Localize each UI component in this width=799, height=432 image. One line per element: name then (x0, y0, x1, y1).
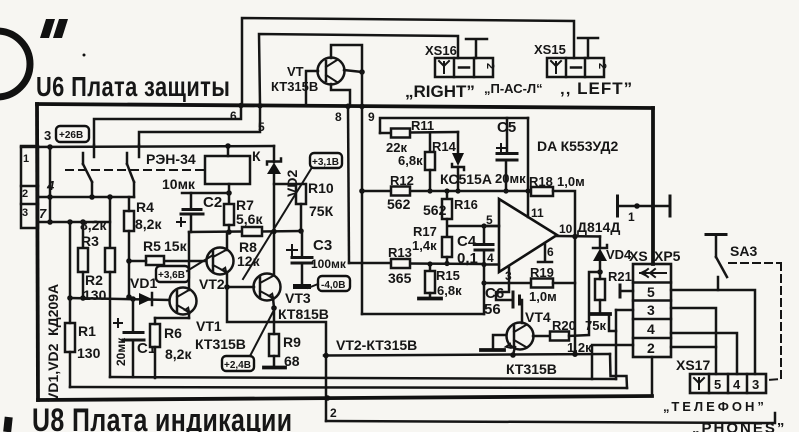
resistor R1 (65, 323, 75, 352)
svg-text:9: 9 (368, 110, 375, 124)
wire VT1 emitter row to R6 (155, 317, 189, 320)
junction dot R10/C3 row232 (298, 228, 304, 234)
junction dot R1/row297 (67, 295, 73, 301)
node 8 dot on border (345, 104, 351, 110)
wire R19 right lead (553, 282, 575, 285)
wire row297 (VD1 row) (70, 298, 169, 300)
wire VT2 emitter branch down to node2 column (227, 287, 326, 421)
svg-text:3: 3 (44, 128, 51, 143)
svg-text:C6: C6 (485, 285, 504, 302)
svg-text:365: 365 (388, 270, 412, 286)
connector XS16 box (435, 58, 493, 77)
svg-text:75К: 75К (309, 203, 334, 219)
wire cell4 right to XS17 pin4 (671, 333, 737, 374)
resistor R18 (horizontal) (531, 187, 553, 196)
wire terminal bar link to rail379 riser (609, 315, 616, 331)
svg-text:R17: R17 (413, 224, 437, 239)
connector XS15 box (547, 58, 604, 77)
svg-text:R13: R13 (388, 245, 412, 260)
resistor R15 (425, 271, 435, 293)
svg-text:1: 1 (628, 210, 635, 224)
junction dot SW1 bottom (89, 194, 95, 200)
svg-text:8: 8 (335, 110, 342, 124)
resistor R4 (124, 211, 134, 231)
wire cell5 right to XS17 pin3 (671, 290, 755, 374)
junction dot row222 R2 lead (80, 219, 86, 225)
wire R13 row (349, 263, 484, 264)
junction dot R4col/R5 (126, 258, 132, 264)
junction dot output (572, 234, 578, 240)
wire VT collector loop to node 9 column (331, 45, 362, 72)
wire R21 top lead (599, 272, 602, 279)
junction dot pin5/C4 (481, 223, 486, 228)
wire VT2 collector stub (226, 232, 229, 250)
wire R14 bottom lead (429, 170, 432, 191)
outer border bottom (38, 396, 652, 400)
junction dot node9/R12 row (359, 188, 365, 194)
op-amp DA triangle (499, 199, 557, 272)
wire relay coil bottom to R7 (228, 184, 231, 204)
C5 plus sign (497, 144, 505, 152)
junction dot row147 x50 (47, 144, 53, 150)
wire R15 bottom lead (429, 293, 432, 297)
node 5 dot on border (257, 103, 263, 109)
resistor R17 (442, 237, 452, 257)
junction dot C5/row191 (503, 188, 508, 193)
svg-text:R3: R3 (81, 233, 99, 249)
wire R15 top lead (429, 264, 432, 271)
svg-text:DA К553УД2: DA К553УД2 (537, 138, 618, 154)
wire cell2 left to rail379 (592, 345, 633, 379)
transistor VT (KT315V) top (318, 58, 345, 85)
XS15 chassis T symbol (578, 38, 598, 58)
svg-text:6,8к: 6,8к (437, 283, 462, 298)
svg-text:10: 10 (559, 222, 573, 236)
XS17 arrow glyph (694, 378, 704, 389)
capacitor C1 (123, 299, 144, 377)
resistor R8 (horizontal) (242, 227, 262, 236)
svg-text:562: 562 (423, 202, 447, 218)
node 9 dot on border (359, 104, 365, 110)
svg-text:РЭН-34: РЭН-34 (146, 151, 196, 167)
SA3 mech dashed link (729, 262, 779, 264)
C1 plus sign (114, 319, 122, 327)
svg-text:5: 5 (486, 213, 493, 227)
svg-text:11: 11 (531, 206, 544, 220)
resistor R7 (224, 204, 234, 225)
wire R6 top lead (154, 318, 157, 324)
svg-text:R14: R14 (432, 139, 457, 154)
svg-text:XS17: XS17 (676, 357, 710, 373)
svg-text:U8 Плата индикации: U8 Плата индикации (32, 403, 293, 432)
pin 4 stub (484, 263, 499, 266)
junction dot R2/row297 (80, 295, 86, 301)
wire R5 left lead to R4 column (129, 260, 146, 263)
svg-text:VT2-КТ315В: VT2-КТ315В (336, 337, 417, 353)
big circle fragment top-left (0, 31, 30, 97)
svg-text:0,1: 0,1 (457, 250, 478, 267)
wire top rail 1 (to XS15) (242, 18, 574, 104)
svg-text:R12: R12 (390, 173, 414, 188)
svg-text:КТ815В: КТ815В (278, 306, 329, 322)
svg-text:1,0м: 1,0м (529, 289, 557, 304)
transistor VT4 (506, 323, 534, 350)
wire XP5 top feed (board right edge) already drawn; terminal T left of cell5 (620, 285, 633, 297)
outer border left (37, 104, 38, 400)
svg-text:4: 4 (487, 251, 494, 265)
pin 3 stub (508, 266, 511, 283)
wire node6 down-left to switch1 (94, 106, 241, 145)
resistor R6 (150, 324, 160, 347)
svg-text:5,6к: 5,6к (236, 211, 263, 227)
svg-text:SA3: SA3 (730, 243, 757, 259)
wire cell3 riser to rail379 (615, 310, 618, 379)
wire VT4 collector to R20 (533, 335, 550, 338)
wire VT3 emitter down (273, 298, 274, 308)
wire top rail 2 (to XS16) (259, 34, 458, 104)
diode VD4 (zener) (593, 237, 607, 273)
connector XP5 box (633, 264, 671, 357)
junction dot feedback/railA (572, 351, 578, 357)
resistor R9 (269, 334, 279, 356)
transistor VT3 (254, 274, 281, 301)
svg-text:„ТЕЛЕФОН”: „ТЕЛЕФОН” (663, 399, 767, 414)
wire R1 bottom lead to mid rail (69, 352, 72, 387)
svg-text:1,2к: 1,2к (567, 340, 592, 355)
svg-text:C5: C5 (497, 119, 516, 136)
pin 5 stub (484, 225, 499, 228)
XS16 pin glyph dash (459, 66, 469, 69)
svg-text:1,4к: 1,4к (412, 238, 437, 253)
junction dot relay bottom / C2 row (226, 190, 232, 196)
diode VD2 (zener) (267, 146, 281, 174)
svg-text:К: К (252, 148, 261, 164)
wire VD2 to R10 top (274, 183, 296, 186)
relay contact SW2 (127, 145, 139, 197)
XP5 arrow glyph cell (640, 269, 666, 277)
svg-text:R11: R11 (411, 118, 434, 133)
wire VT2 emitter row to VT3 base (227, 286, 254, 289)
svg-text:6,8к: 6,8к (398, 153, 423, 168)
svg-text:„RIGHT”: „RIGHT” (405, 82, 475, 101)
rail A VT4 emitter row (324, 354, 610, 356)
wire R9 top lead (273, 308, 276, 334)
resistor R10 (296, 184, 306, 204)
transistor VT1 (170, 288, 197, 315)
svg-text:КС515А: КС515А (440, 171, 492, 187)
svg-text:R19: R19 (530, 265, 554, 280)
svg-text:R18: R18 (529, 174, 553, 189)
junction dot R4 column row297 (126, 294, 132, 300)
wire R17 bottom lead (446, 257, 449, 264)
wire row232 main (189, 231, 301, 232)
svg-text:56: 56 (484, 301, 501, 318)
junction dot VD4/R21/R20 (597, 269, 603, 275)
wire R19 row (C4 to R19) (484, 282, 531, 285)
svg-text:VT: VT (287, 64, 304, 79)
svg-text:ХР5: ХР5 (654, 248, 681, 264)
junction dot x50 row222 (47, 219, 53, 225)
svg-text:68: 68 (284, 353, 300, 369)
svg-text:КТ315В: КТ315В (506, 361, 557, 377)
rail A right step down (610, 354, 627, 388)
svg-text:XS: XS (629, 248, 648, 264)
svg-text:R4: R4 (136, 199, 154, 215)
switch SA3 (706, 235, 727, 291)
wire R3 bottom long lead to rail379 (109, 272, 112, 377)
svg-text:3: 3 (505, 269, 512, 283)
svg-text:15к: 15к (164, 238, 188, 254)
relay coil K box (205, 156, 250, 184)
svg-text:5: 5 (647, 284, 655, 300)
wire VT emitter down to node 8 (331, 84, 350, 104)
svg-text:VT2: VT2 (199, 276, 225, 292)
svg-text:8,2к: 8,2к (80, 217, 107, 233)
svg-text:130: 130 (77, 345, 101, 361)
svg-text:R9: R9 (283, 334, 301, 350)
voltage callout +3,6V (156, 255, 213, 282)
wire cell2 right joining pin5 riser (671, 346, 716, 349)
junction dot C1 stem (130, 296, 136, 302)
svg-text:КТ315В: КТ315В (195, 336, 246, 352)
svg-text:XS16: XS16 (425, 43, 457, 58)
resistor R14 (425, 152, 435, 170)
svg-text:20мк: 20мк (114, 337, 128, 366)
junction dot C4/pin4 (481, 262, 486, 267)
svg-text:20мк: 20мк (495, 171, 526, 186)
wire node8 riser to R13 row (348, 106, 349, 263)
wire R16 top lead (446, 191, 449, 199)
svg-text:R20: R20 (552, 318, 576, 333)
svg-text:R6: R6 (164, 325, 182, 341)
junction dot zener/row191 (455, 188, 460, 193)
junction dot pin1 terminal (634, 203, 640, 209)
svg-text:4: 4 (733, 377, 741, 392)
relay contact SW1 (83, 145, 94, 197)
svg-text:VT1: VT1 (196, 318, 222, 334)
svg-text:+3,1В: +3,1В (312, 157, 339, 168)
svg-text:2: 2 (330, 406, 337, 420)
wire R3 top lead (109, 197, 112, 248)
wire R9 bottom lead (273, 356, 276, 366)
svg-text:3: 3 (22, 207, 28, 219)
wire y314 link (362, 313, 484, 316)
pin 6 stub and bar (538, 243, 552, 262)
ground bar under R15 (419, 297, 441, 301)
wire VT2 emitter down (226, 272, 229, 287)
junction dot row197 R3 lead (107, 194, 113, 200)
svg-text:8,2к: 8,2к (135, 216, 162, 232)
svg-text:R15: R15 (436, 268, 460, 283)
pin 11 riser (527, 118, 530, 217)
svg-text:-4,0В: -4,0В (321, 280, 345, 291)
svg-text:100мк: 100мк (311, 257, 347, 271)
wire pin bridge x50 (49, 147, 52, 222)
svg-text:C2: C2 (203, 194, 222, 211)
svg-text:VT4: VT4 (525, 309, 551, 325)
wire R11 top rail (380, 118, 528, 133)
svg-text:VD1,VD2 КД209А: VD1,VD2 КД209А (45, 284, 61, 402)
svg-text:R5: R5 (143, 238, 161, 254)
wire relay coil top stub (227, 146, 230, 156)
wire node9 riser (361, 72, 364, 104)
svg-text:R1: R1 (78, 323, 96, 339)
junction dot railA node2 column (323, 353, 329, 359)
svg-text:5: 5 (714, 377, 721, 392)
svg-text:3: 3 (752, 377, 759, 392)
svg-text:8,2к: 8,2к (165, 346, 192, 362)
junction dot border bottom node2 (325, 395, 331, 401)
diode VD1 (139, 293, 152, 305)
svg-text:2: 2 (596, 63, 608, 69)
junction dot x50 row197 (47, 194, 53, 200)
wire R11 row (380, 132, 458, 133)
wire R1 top lead (69, 298, 72, 323)
junction dot VT2 emitter node (224, 284, 230, 290)
svg-text:„П-АС-Л“: „П-АС-Л“ (484, 81, 543, 96)
wire VT1 collector to row232 (188, 232, 191, 290)
rail379 common (bottom of board) (110, 377, 616, 379)
wire VT4 emitter to railA (513, 347, 515, 355)
wire C2 row (182, 192, 229, 195)
junction dot VT3 emitter (271, 305, 277, 311)
svg-text:R21: R21 (608, 269, 632, 284)
junction dot VD2col row232 (271, 229, 277, 235)
wire R1 column upper (69, 222, 72, 298)
quote mark top-left (40, 19, 68, 38)
wire R20 right riser to VD4 node (569, 272, 600, 336)
svg-text:+3,6В: +3,6В (158, 270, 185, 281)
svg-text:+26В: +26В (59, 130, 83, 141)
svg-text:2: 2 (484, 63, 496, 69)
voltage callout -4,0V (308, 276, 350, 291)
wire node5 down-left to switch2 (139, 106, 260, 145)
outer border top (37, 104, 653, 108)
wire node9 riser to y314 (361, 106, 364, 314)
C2 plus sign (177, 218, 185, 226)
svg-text:„PHONES”: „PHONES” (692, 420, 786, 432)
junction dot R16/row191 (444, 188, 449, 193)
svg-text:562: 562 (387, 196, 411, 212)
wire R4 bottom long lead (128, 231, 131, 297)
resistor R12 (horizontal) (391, 187, 410, 196)
ground bar under R9 (264, 366, 285, 370)
resistor R16 (442, 199, 452, 219)
junction dot VT4 emitter (510, 352, 516, 358)
XS16 chassis T symbol (466, 39, 487, 58)
bottom-left corner glyph fragment (3, 417, 13, 432)
resistor R3 (tall) (105, 248, 115, 272)
relay actuation dashed line (66, 169, 205, 171)
wire row222 (pin3) (38, 221, 110, 224)
svg-text:130: 130 (83, 287, 107, 303)
svg-text:VT3: VT3 (285, 290, 311, 306)
wire row147 +26V rail (21, 146, 274, 147)
outer border right (into XP5) (651, 108, 655, 264)
voltage callout +2,4V (222, 310, 274, 371)
wire VT1 emitter down (188, 312, 191, 318)
resistor R5 (horizontal) (146, 256, 164, 265)
border-bottom right riser into XP5 cell2 (651, 357, 654, 396)
svg-text:R2: R2 (85, 272, 103, 288)
capacitor C6 (496, 283, 522, 323)
svg-text:6: 6 (230, 109, 237, 123)
junction dot VT collector node (359, 69, 365, 75)
svg-text:10мк: 10мк (162, 176, 196, 192)
junction dot R14/row191 (427, 188, 432, 193)
XS16 pin glyph arrow (439, 61, 449, 73)
voltage callout +26V (56, 126, 89, 142)
C3 negative plate bar (293, 284, 311, 289)
wire R4 top lead (128, 197, 131, 211)
ground bar VT4 (481, 348, 504, 352)
resistor R19 (horizontal) (531, 279, 553, 288)
svg-text:U6 Плата защиты: U6 Плата защиты (36, 71, 230, 102)
wire R14 top lead (429, 133, 432, 153)
resistor R13 (horizontal) (391, 259, 410, 268)
resistor R11 (horizontal) (391, 129, 410, 138)
capacitor C5 (497, 118, 517, 191)
wire VT4 base to ground (493, 335, 506, 349)
junction dot R17/row263 (444, 261, 449, 266)
wire R6 bottom to rail379 (154, 347, 157, 378)
terminal symbol pin1 top right (618, 196, 671, 216)
svg-text:R16: R16 (454, 197, 478, 212)
wire row191 (R12..R18) (362, 190, 531, 193)
svg-text:+2,4В: +2,4В (224, 360, 251, 371)
svg-text:1: 1 (23, 153, 29, 165)
bottom long wire (node 2) (326, 413, 775, 423)
wire cell3 right to XS17 pin5 (671, 308, 716, 374)
capacitor C3 (292, 231, 312, 284)
wire R18 right to feedback column (553, 191, 575, 355)
transistor VT2 (207, 248, 234, 275)
svg-text:3: 3 (647, 302, 655, 318)
wire R2 bottom to row297 (82, 272, 85, 298)
C3 plus sign (287, 245, 297, 255)
junction dot pin11/row191 (525, 188, 530, 193)
wire R16-R17 link / pin5 row (447, 219, 499, 237)
resistor R20 (horizontal) (550, 332, 569, 341)
left connector strip pins 1-3 (21, 146, 38, 228)
mid rail (R1 / VT4 emitter net) (70, 387, 627, 388)
wire R21 bottom lead (599, 300, 602, 313)
XS15 pin glyph dash (571, 66, 581, 69)
resistor R2 (8,2k left) (78, 248, 88, 272)
wire VT base left and down to border (306, 71, 318, 104)
resistor R21 (595, 279, 605, 300)
junction dot C4/R19 row (481, 280, 486, 285)
wire cell3 stub (616, 309, 633, 312)
voltage callout +3,1V (243, 153, 342, 279)
svg-text:R10: R10 (308, 180, 334, 196)
XS15 pin glyph arrow (551, 61, 561, 73)
capacitor C2 (181, 193, 203, 232)
zener KS515A (452, 132, 464, 191)
wire op-amp output to VD4 column (557, 235, 600, 238)
svg-text:6: 6 (547, 245, 554, 259)
wire R5 to VT2 base (164, 260, 206, 263)
svg-text:C3: C3 (313, 237, 332, 254)
noise dot (83, 54, 86, 57)
wire R7 bottom (228, 225, 231, 232)
svg-text:2: 2 (647, 340, 655, 356)
svg-text:‚‚ LEFT”: ‚‚ LEFT” (560, 79, 633, 98)
dashed line right side (768, 263, 781, 380)
wire row197 (pin2) (38, 196, 134, 199)
svg-text:2: 2 (22, 188, 28, 200)
svg-text:КТ315В: КТ315В (271, 79, 318, 94)
